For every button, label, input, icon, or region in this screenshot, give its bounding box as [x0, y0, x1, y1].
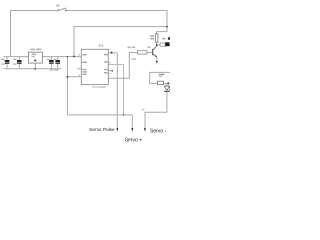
switch S1: [58, 8, 67, 11]
capacitor C4: [47, 57, 60, 71]
wire GP3 to IC: [67, 76, 81, 78]
wire top rail right segment: [67, 11, 168, 32]
capacitor C2: [13, 57, 21, 69]
node Servo Pulse arrow: [116, 128, 118, 131]
label D1: [162, 38, 166, 40]
resistor R5 in loop: [158, 81, 164, 85]
pin 8 dark mark: [111, 52, 113, 54]
pin 7 end dot: [112, 70, 114, 72]
svg-text:IC2: IC2: [99, 43, 104, 47]
wire servo+ horizontal: [67, 114, 132, 116]
wire V+ rail y56: [4, 56, 82, 58]
junction VDD rail: [73, 55, 75, 57]
net label near corner: [142, 109, 145, 110]
transistor T1: [147, 45, 157, 63]
junction top rails: [166, 26, 168, 28]
regulator gnd triangle: [34, 60, 37, 62]
wire jog to R4 top: [157, 32, 167, 34]
wire stub pin left mid: [77, 68, 81, 70]
IC2 pin names: [82, 54, 107, 75]
wire loop resistor right: [164, 83, 169, 86]
wire VDD vertical from rail2: [73, 27, 75, 57]
wire diode row: [157, 44, 160, 46]
net label base: [131, 58, 136, 60]
svg-text:Servo Pulse: Servo Pulse: [89, 127, 115, 132]
svg-text:PIC12F629: PIC12F629: [93, 85, 107, 89]
node Servo - arrow: [144, 128, 146, 131]
wire top rail left segment: [11, 11, 58, 57]
junction servo+ tap: [67, 56, 68, 57]
resistor R4 vertical: [155, 34, 158, 42]
svg-text:Servo +: Servo +: [125, 138, 142, 144]
junction regulator ground: [34, 68, 36, 70]
wire servo+ vertical: [66, 57, 68, 115]
junction LED anode: [167, 82, 169, 84]
wire servo pulse vertical: [108, 53, 117, 129]
node Servo + arrow: [131, 128, 133, 131]
label IC1 78L05: [31, 49, 35, 51]
wire servo minus drop: [145, 112, 167, 129]
regulator gnd lead: [34, 63, 36, 69]
capacitor C3: [49, 57, 56, 71]
wire R4 bottom to node: [156, 42, 158, 45]
label R4 value: [150, 35, 154, 37]
op IC2 microcontroller box: [81, 49, 108, 84]
wire +V rail second: [74, 27, 167, 57]
junction GP3 wire: [66, 76, 68, 78]
wire servo+ drop: [131, 115, 133, 129]
diode D1: [160, 43, 165, 46]
wire base resistor to base: [147, 52, 152, 54]
IC2 pin numbers: [79, 54, 111, 76]
capacitor C1: [1, 57, 9, 69]
relay loop label: [159, 74, 164, 76]
regulator IC1 box: [28, 52, 42, 63]
resistor R3 base: [138, 51, 147, 54]
LED1: [164, 86, 170, 112]
regulator pin text: [32, 54, 37, 55]
wire relay loop: [150, 72, 170, 83]
label R3 value: [127, 47, 130, 49]
svg-text:Servo -: Servo -: [150, 128, 166, 134]
junction collector node: [156, 44, 158, 46]
wire ground rail: [4, 68, 62, 70]
wire stub pin right 3: [108, 70, 112, 72]
wire base net: [108, 53, 137, 79]
junction servo+ pin2: [123, 114, 124, 115]
